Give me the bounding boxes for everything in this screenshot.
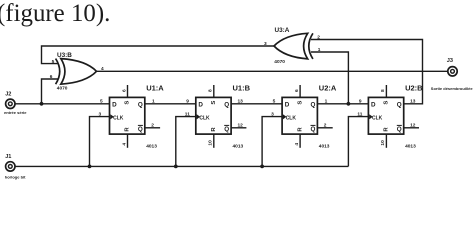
svg-text:Q: Q — [138, 126, 143, 133]
svg-text:Sortie désembrouillée: Sortie désembrouillée — [431, 86, 474, 91]
svg-text:horloge bit: horloge bit — [5, 174, 26, 179]
svg-text:11: 11 — [357, 111, 362, 117]
svg-text:5: 5 — [52, 59, 55, 65]
svg-text:8: 8 — [380, 89, 386, 92]
svg-text:CLK: CLK — [199, 115, 210, 121]
svg-text:9: 9 — [359, 99, 362, 105]
svg-text:11: 11 — [185, 111, 190, 117]
junction dot at input net branch (41.5,103.8) — [40, 102, 44, 106]
pin stub Qbar of U2:B — [404, 127, 419, 129]
svg-text:D: D — [371, 101, 376, 108]
pin stub S (top) of U2:B — [385, 85, 387, 97]
svg-text:S: S — [297, 101, 303, 105]
svg-text:U2:A: U2:A — [319, 83, 337, 92]
svg-text:6: 6 — [294, 89, 300, 92]
flip-flop U1:B (4013) — [196, 97, 231, 134]
wire net Q1: U1:A Q pin1 to U1:B D pin9 — [145, 103, 196, 105]
svg-text:CLK: CLK — [113, 115, 124, 121]
svg-text:S: S — [211, 101, 217, 105]
svg-text:13: 13 — [238, 99, 244, 105]
pin stub Qbar of U1:A — [145, 127, 160, 129]
wire net Q4: U2:B Q pin13 up to U3:A pin2 — [311, 40, 423, 104]
svg-text:U3:B: U3:B — [57, 52, 72, 59]
svg-text:2: 2 — [151, 123, 154, 129]
svg-text:3: 3 — [264, 41, 267, 47]
svg-text:Q: Q — [138, 101, 143, 108]
svg-text:D: D — [285, 101, 290, 108]
svg-text:4: 4 — [121, 143, 127, 146]
wire branch: net Q3 up to U3:A pin1 — [311, 52, 348, 104]
wire clock branch to U2:A CLK — [262, 117, 282, 167]
svg-text:1: 1 — [318, 47, 321, 53]
svg-text:J3: J3 — [447, 58, 453, 64]
wire clock branch to U2:B CLK — [348, 117, 368, 167]
svg-text:1: 1 — [152, 99, 155, 105]
pin stub S (top) of U2:A — [299, 85, 301, 97]
svg-text:Q: Q — [397, 126, 402, 133]
svg-text:3: 3 — [271, 111, 274, 117]
svg-text:R: R — [125, 127, 131, 132]
svg-text:12: 12 — [410, 123, 416, 129]
svg-text:4013: 4013 — [405, 143, 416, 149]
pin stub Qbar of U2:A — [317, 127, 332, 129]
flip-flop U2:A (4013) — [282, 97, 317, 134]
svg-text:8: 8 — [208, 89, 214, 92]
flip-flop U2:B (4013) — [368, 97, 403, 134]
svg-text:4070: 4070 — [57, 86, 68, 92]
svg-text:3: 3 — [99, 111, 102, 117]
svg-text:Q: Q — [397, 101, 402, 108]
svg-text:U3:A: U3:A — [275, 27, 290, 34]
svg-text:1: 1 — [325, 99, 328, 105]
svg-text:5: 5 — [273, 99, 276, 105]
svg-text:J2: J2 — [5, 92, 11, 98]
svg-text:2: 2 — [324, 123, 327, 129]
svg-text:13: 13 — [410, 99, 416, 105]
pin stub S (top) of U1:B — [213, 85, 215, 97]
wire clock rail: J1 to CLK verticals — [15, 165, 348, 167]
svg-text:4070: 4070 — [274, 59, 285, 65]
connector J3 — [448, 67, 457, 76]
wire net serial input: J2 to U1:A D pin — [15, 103, 110, 105]
svg-text:S: S — [384, 101, 390, 105]
svg-text:4: 4 — [101, 66, 104, 72]
xor gate U3:B body — [56, 59, 97, 85]
svg-text:D: D — [112, 101, 117, 108]
wire clock branch to U1:A CLK — [90, 117, 110, 167]
wire net Q2: U1:B Q pin13 to U2:A D pin5 — [231, 103, 282, 105]
svg-text:R: R — [297, 127, 303, 132]
svg-text:U2:B: U2:B — [405, 83, 423, 92]
pin stub Qbar of U1:B — [231, 127, 246, 129]
wire net output: U3:B pin4 to J3 — [97, 70, 448, 72]
svg-text:Q: Q — [224, 101, 229, 108]
svg-text:12: 12 — [238, 123, 244, 129]
xor gate U3:A body — [274, 33, 313, 59]
svg-text:D: D — [198, 101, 203, 108]
wire clock branch to U1:B CLK — [176, 117, 196, 167]
svg-text:4013: 4013 — [146, 143, 157, 149]
flip-flop U1:A (4013) — [110, 97, 145, 134]
connector J1 — [6, 162, 15, 171]
svg-text:2: 2 — [317, 34, 320, 40]
connector J2 — [6, 99, 15, 108]
svg-text:6: 6 — [50, 74, 53, 80]
svg-text:9: 9 — [186, 99, 189, 105]
svg-text:10: 10 — [208, 140, 214, 146]
svg-text:U1:A: U1:A — [146, 83, 164, 92]
svg-text:R: R — [211, 127, 217, 132]
svg-text:CLK: CLK — [372, 115, 383, 121]
svg-text:Q: Q — [224, 126, 229, 133]
svg-text:CLK: CLK — [286, 115, 297, 121]
pin stub R (bottom) of U2:A — [299, 134, 301, 148]
svg-text:U1:B: U1:B — [233, 83, 251, 92]
junction dot at net Q3 branch (348.4,103.8) — [347, 102, 351, 106]
pin stub R (bottom) of U1:B — [213, 134, 215, 148]
pin stub R (bottom) of U2:B — [385, 134, 387, 148]
svg-text:entrée série: entrée série — [4, 110, 27, 115]
svg-text:S: S — [125, 101, 131, 105]
pin stub S (top) of U1:A — [127, 85, 129, 97]
pin stub R (bottom) of U1:A — [127, 134, 129, 148]
junction dot on clock rail (262.1,166.4) — [260, 165, 264, 169]
wire branch: input net up to U3:B pin6 — [42, 79, 59, 104]
junction dot on clock rail (89.5,166.4) — [88, 165, 92, 169]
svg-text:Q: Q — [311, 126, 316, 133]
svg-text:4013: 4013 — [233, 143, 244, 149]
svg-text:4013: 4013 — [319, 143, 330, 149]
svg-text:J1: J1 — [5, 154, 11, 160]
svg-text:10: 10 — [380, 140, 386, 146]
junction dot on clock rail (175.8,166.4) — [174, 165, 178, 169]
svg-text:R: R — [384, 127, 390, 132]
svg-text:4: 4 — [294, 143, 300, 146]
svg-text:6: 6 — [121, 89, 127, 92]
svg-text:5: 5 — [100, 99, 103, 105]
svg-text:Q: Q — [311, 101, 316, 108]
svg-text:(figure 10).: (figure 10). — [0, 0, 110, 27]
wire net Q3: U2:A Q pin1 to U2:B D pin9 — [317, 103, 368, 105]
wire net feedback: U3:A pin3 output to U3:B pin5 input — [42, 46, 275, 64]
